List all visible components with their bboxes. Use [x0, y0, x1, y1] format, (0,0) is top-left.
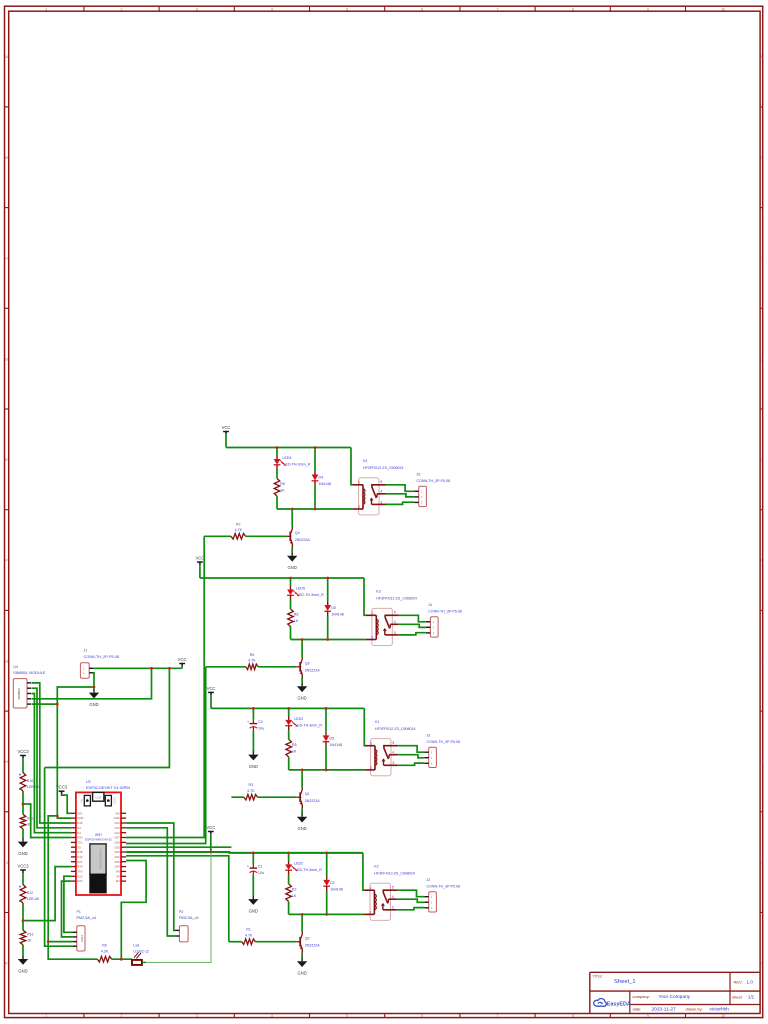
svg-text:5: 5: [346, 1014, 348, 1018]
svg-text:D: D: [760, 357, 763, 361]
wire emitter circuit 3: [301, 808, 303, 813]
photoresistor LDR1: [19, 773, 26, 792]
wire rail drop to ESP VIN feed: [45, 668, 170, 767]
ground below Q3: [297, 683, 307, 701]
wire ESP GPIO to base circuit 2: [126, 667, 206, 844]
svg-text:7: 7: [497, 1014, 499, 1018]
wire VCC rail circuit 4: [126, 851, 363, 854]
svg-text:C: C: [5, 257, 8, 261]
svg-text:K1: K1: [375, 720, 379, 724]
wire VCC3 to LDR2: [22, 873, 24, 884]
svg-text:J: J: [6, 861, 8, 865]
svg-text:2: 2: [358, 505, 360, 509]
svg-text:P1: P1: [77, 910, 81, 914]
svg-text:3: 3: [196, 7, 198, 11]
svg-text:1K: 1K: [292, 749, 297, 753]
svg-text:CONN-TH_3P-P5.08: CONN-TH_3P-P5.08: [427, 884, 461, 888]
svg-text:GND: GND: [18, 968, 27, 973]
transistor Q3: [296, 657, 303, 678]
LED LED3: [285, 716, 297, 730]
wire resistor to bottom rail circuit 1: [276, 496, 278, 509]
wire ESP GPIO to base circuit 3: [126, 846, 231, 848]
svg-text:GND: GND: [297, 696, 306, 701]
svg-text:R12: R12: [27, 891, 33, 895]
svg-text:4: 4: [271, 7, 273, 11]
svg-text:GND: GND: [89, 702, 98, 707]
relay K1: [365, 739, 398, 776]
svg-text:1N4148: 1N4148: [319, 482, 332, 486]
svg-text:GND: GND: [18, 851, 27, 856]
svg-text:5: 5: [380, 480, 382, 484]
label LDR1: [27, 779, 39, 789]
svg-text:D14: D14: [115, 831, 120, 835]
wire LED to resistor circuit 1: [276, 470, 278, 479]
wire ESP GPIO to base circuit 4: [126, 856, 229, 942]
resistor R8 LED series: [288, 609, 294, 627]
label LED2: [294, 861, 322, 872]
wire diode to bottom rail circuit 1: [314, 486, 316, 510]
wire relay pin3 to connector circuit 3: [398, 763, 425, 765]
svg-text:U4: U4: [13, 665, 18, 669]
svg-text:D35: D35: [115, 860, 120, 864]
svg-text:date:: date:: [633, 1007, 642, 1012]
svg-text:D4: D4: [319, 476, 324, 480]
svg-text:GND: GND: [297, 826, 306, 831]
svg-text:3: 3: [196, 1014, 198, 1018]
resistor R13: [20, 930, 26, 945]
svg-text:VCC: VCC: [222, 425, 231, 430]
wire branch to P1 pin3: [48, 941, 72, 943]
svg-text:+: +: [247, 719, 250, 724]
ESP32 chip and antenna: [90, 844, 106, 893]
resistor R1 base: [242, 939, 256, 945]
svg-text:ESP32-DEVKIT V4 30PIN: ESP32-DEVKIT V4 30PIN: [86, 786, 130, 790]
wire R9 junction: [112, 958, 132, 960]
svg-text:TX2: TX2: [77, 841, 82, 845]
svg-text:4: 4: [380, 490, 382, 494]
wire rail to capacitor circuit 3: [252, 708, 254, 719]
svg-text:D21: D21: [77, 860, 82, 864]
wire R11 to ground: [22, 829, 24, 838]
wire relay pin4 to connector circuit 4: [397, 899, 424, 902]
connector J4: [426, 617, 438, 637]
svg-text:D5: D5: [77, 845, 81, 849]
svg-text:1: 1: [45, 1014, 47, 1018]
svg-text:D19: D19: [77, 855, 82, 859]
wire VCC3 to LDR1: [22, 759, 24, 773]
label R5: [292, 743, 297, 754]
wire bottom rail circuit 2: [291, 639, 366, 641]
buzzer LS1: [132, 952, 142, 965]
resistor R4 base: [246, 664, 258, 670]
resistor R5 LED series: [286, 739, 292, 757]
svg-text:1K: 1K: [280, 489, 285, 493]
ground below J1: [89, 689, 99, 707]
label Q1: [305, 792, 321, 803]
svg-text:CONN-TH_3P-P5.08: CONN-TH_3P-P5.08: [428, 610, 462, 614]
label R1: [245, 928, 253, 938]
svg-text:C3: C3: [258, 720, 263, 724]
wire ESP to P2 pin1: [126, 823, 175, 930]
wire emitter circuit 1: [291, 548, 293, 553]
svg-text:D5: D5: [331, 606, 336, 610]
wire VCC stem circuit 1: [225, 435, 227, 448]
svg-text:4: 4: [394, 620, 396, 624]
svg-text:R9: R9: [102, 944, 107, 948]
label K4: [363, 459, 404, 470]
svg-text:Q3: Q3: [305, 662, 310, 666]
svg-text:LED2: LED2: [294, 861, 303, 865]
svg-text:EasyEDA: EasyEDA: [607, 1002, 631, 1008]
label LED5: [296, 587, 324, 598]
svg-text:4: 4: [392, 895, 394, 899]
svg-text:D25: D25: [115, 845, 120, 849]
svg-text:1/1: 1/1: [748, 995, 755, 1000]
wire base drive to resistor circuit 3: [231, 796, 244, 798]
wire VCC stem circuit 3: [210, 696, 212, 709]
svg-text:ESP32-WROOM: ESP32-WROOM: [99, 849, 103, 868]
svg-text:J1: J1: [84, 649, 88, 653]
label K1: [375, 720, 416, 731]
label K3: [376, 590, 417, 601]
wire base drive to resistor circuit 4: [229, 941, 242, 943]
svg-text:K2: K2: [374, 864, 378, 868]
wire relay pin3 to connector circuit 2: [399, 633, 426, 635]
svg-text:SIM800L: SIM800L: [17, 687, 21, 699]
svg-text:B: B: [5, 156, 8, 160]
svg-text:7: 7: [497, 7, 499, 11]
ground below Q4: [287, 552, 297, 570]
svg-text:Q4: Q4: [295, 531, 300, 535]
resistor R7 base: [231, 534, 246, 540]
svg-text:3: 3: [380, 500, 382, 504]
diode D3: [323, 732, 330, 747]
diode D5: [324, 602, 331, 617]
svg-text:LED4: LED4: [283, 456, 292, 460]
svg-text:R10: R10: [27, 779, 33, 783]
label P2: [179, 910, 199, 920]
svg-text:C: C: [760, 257, 763, 261]
svg-text:Q1: Q1: [305, 792, 310, 796]
label D3: [330, 736, 343, 747]
svg-text:1: 1: [45, 7, 47, 11]
wire diode to bottom rail circuit 4: [326, 891, 328, 915]
wire GSM pin3 to ESP: [32, 694, 71, 833]
svg-text:J5: J5: [417, 473, 421, 477]
svg-text:10: 10: [721, 1014, 725, 1018]
wire relay pin5 to connector circuit 4: [397, 890, 424, 897]
wire VCC stem J1 rail: [181, 667, 183, 669]
svg-text:LED5: LED5: [296, 587, 305, 591]
wire rail to diode circuit 1: [314, 448, 316, 472]
wire bottom rail circuit 4: [289, 913, 364, 915]
wire ESP to P1 pin2: [62, 881, 73, 937]
label Q4: [295, 531, 311, 542]
label LED3: [294, 717, 322, 728]
svg-text:D4: D4: [77, 831, 81, 835]
wire J1 pin1 to ground: [93, 673, 95, 689]
svg-text:D2: D2: [77, 826, 81, 830]
wire capacitor to ground circuit 3: [252, 730, 254, 751]
wire relay pin5 to connector circuit 3: [398, 746, 425, 753]
relay K3: [366, 608, 399, 645]
transistor Q2: [296, 932, 303, 953]
wire collector circuit 2: [301, 640, 303, 658]
svg-text:VCC: VCC: [195, 555, 204, 560]
svg-text:+: +: [247, 863, 250, 868]
svg-text:K: K: [5, 962, 8, 966]
connector J5: [414, 486, 426, 506]
label LDR2: [27, 891, 39, 901]
label R7: [235, 522, 243, 532]
wire ground net branch to P1 and R9: [48, 816, 97, 959]
power VCC3 divider 2: [17, 863, 29, 873]
wire ground net to ESP GND pin: [57, 816, 71, 818]
svg-text:D3: D3: [330, 736, 335, 740]
svg-text:LED-TH-3mm_R: LED-TH-3mm_R: [284, 463, 311, 467]
svg-text:1: 1: [371, 611, 373, 615]
svg-text:1N4148: 1N4148: [330, 887, 343, 891]
label LED4: [283, 456, 311, 467]
label C3: [258, 720, 264, 730]
svg-text:company:: company:: [633, 994, 650, 999]
label J3: [427, 733, 461, 744]
svg-text:2N2222A: 2N2222A: [305, 668, 321, 672]
wire LED to resistor circuit 4: [288, 875, 290, 884]
svg-text:GND: GND: [77, 816, 83, 820]
label R4: [248, 653, 256, 663]
svg-text:CONN-TH_3P-P5.08: CONN-TH_3P-P5.08: [427, 740, 461, 744]
svg-text:TITLE:: TITLE:: [593, 974, 603, 978]
wire LED to resistor circuit 3: [288, 730, 290, 739]
svg-text:LD-BZ-12: LD-BZ-12: [133, 949, 149, 953]
connector P1: [72, 926, 85, 951]
connector U4 GSM module: [13, 679, 31, 708]
ground below C3: [248, 751, 258, 769]
svg-text:LED-TH-3mm_R: LED-TH-3mm_R: [297, 593, 324, 597]
power VCC J1 rail: [178, 657, 187, 667]
label R3: [247, 783, 255, 793]
svg-text:K3: K3: [376, 590, 380, 594]
svg-text:R13: R13: [27, 932, 33, 936]
svg-text:D27: D27: [115, 836, 120, 840]
svg-text:9: 9: [647, 1014, 649, 1018]
svg-text:VCC3: VCC3: [17, 863, 29, 868]
wire capacitor to ground circuit 4: [252, 875, 254, 896]
svg-text:R5: R5: [292, 743, 297, 747]
svg-text:WIFI: WIFI: [95, 833, 102, 837]
svg-text:4.7K: 4.7K: [235, 528, 243, 532]
wire ground net vertical: [57, 687, 94, 816]
svg-text:victorhhh: victorhhh: [710, 1007, 730, 1013]
svg-text:VCC: VCC: [206, 825, 215, 830]
junction dots circuit 1: [276, 446, 317, 510]
label U2 ESP32-DEVKIT: [86, 780, 130, 790]
label R8: [294, 613, 299, 624]
wire resistor to base circuit 4: [255, 941, 296, 943]
svg-text:R4: R4: [250, 653, 255, 657]
svg-text:H: H: [5, 760, 8, 764]
svg-text:VCC: VCC: [178, 657, 187, 662]
wire VCC stem circuit 4: [210, 835, 212, 853]
wire rail to diode circuit 3: [325, 708, 327, 732]
resistor R2 LED series: [286, 884, 292, 902]
ESP32 buttons: [81, 795, 116, 806]
junction dots misc: [22, 667, 171, 961]
power VCC symbol circuit 1: [222, 425, 231, 435]
svg-text:J3: J3: [427, 733, 431, 737]
svg-text:D32: D32: [115, 855, 120, 859]
svg-text:GND: GND: [288, 565, 297, 570]
wire rail to LED circuit 4: [288, 853, 290, 861]
svg-text:RX2: RX2: [77, 836, 83, 840]
resistor R3 base: [244, 794, 258, 800]
label R2: [292, 887, 297, 898]
wire ESP to P1 pin1: [64, 876, 72, 932]
wire LDR1 to R11: [22, 791, 24, 814]
svg-text:5: 5: [394, 611, 396, 615]
svg-text:C1: C1: [258, 865, 263, 869]
wire R13 to ground: [22, 945, 24, 956]
label U4: [13, 665, 46, 675]
wire divider1 tap to ESP pin D4: [23, 804, 71, 838]
label R13: [27, 932, 33, 942]
svg-text:4: 4: [392, 751, 394, 755]
svg-text:A: A: [5, 55, 8, 59]
svg-text:RX0: RX0: [77, 865, 83, 869]
capacitor C1: [247, 863, 257, 875]
wire resistor to bottom rail circuit 2: [290, 627, 292, 640]
wire rail to LED circuit 3: [288, 708, 290, 716]
svg-text:2: 2: [121, 1014, 123, 1018]
ground below R11: [18, 838, 28, 856]
svg-text:8: 8: [572, 7, 574, 11]
svg-text:Q2: Q2: [305, 937, 310, 941]
wire VCC rail circuit 2: [200, 577, 364, 579]
svg-text:VN: VN: [116, 870, 120, 874]
svg-text:10u: 10u: [258, 871, 264, 875]
wire buzzer right stub: [142, 961, 146, 963]
svg-text:R1: R1: [246, 928, 251, 932]
wire rail to capacitor circuit 4: [252, 853, 254, 864]
svg-text:4.7K: 4.7K: [245, 933, 253, 937]
svg-text:REV:: REV:: [734, 980, 743, 985]
svg-text:10: 10: [721, 7, 725, 11]
power VCC3 divider 1: [17, 749, 29, 759]
svg-text:GND: GND: [297, 971, 306, 976]
svg-text:H: H: [760, 760, 763, 764]
svg-text:K4: K4: [363, 459, 367, 463]
ESP32 module U2 body: [76, 792, 121, 895]
wire collector circuit 1: [291, 509, 293, 527]
svg-text:1K: 1K: [292, 894, 297, 898]
svg-text:PM2.5A_v4: PM2.5A_v4: [77, 916, 97, 920]
power VCC3 main: [56, 785, 68, 795]
photoresistor LDR2: [19, 885, 26, 904]
wire GSM pin5 to ground net: [32, 703, 58, 705]
ESP32 USB connector: [93, 792, 104, 801]
svg-text:G: G: [760, 659, 763, 663]
ESP32 center text: [85, 833, 112, 842]
svg-text:LED-TH-3mm_R: LED-TH-3mm_R: [295, 723, 322, 727]
svg-text:2: 2: [121, 7, 123, 11]
svg-text:HF3FF/012-ZS_C908024: HF3FF/012-ZS_C908024: [374, 871, 415, 875]
wire bottom rail circuit 3: [289, 769, 365, 771]
label R6: [280, 482, 285, 493]
wire rail to LED circuit 2: [290, 578, 292, 586]
svg-text:PM25: PM25: [80, 935, 84, 942]
svg-text:TX0: TX0: [77, 870, 82, 874]
wire resistor to bottom rail circuit 4: [288, 901, 290, 914]
svg-text:GND: GND: [249, 909, 258, 914]
svg-text:Sheet_1: Sheet_1: [614, 979, 636, 985]
svg-text:D22: D22: [77, 874, 82, 878]
label Q2: [305, 937, 321, 948]
wire collector circuit 3: [301, 770, 303, 788]
svg-text:E: E: [5, 458, 8, 462]
svg-text:D34: D34: [115, 865, 120, 869]
wire buzzer to VCC thin: [146, 853, 211, 963]
svg-text:J: J: [761, 861, 763, 865]
wire ESP to P2 pin2: [126, 828, 175, 936]
svg-text:EN: EN: [81, 799, 84, 803]
wire rail to diode circuit 4: [326, 853, 328, 877]
svg-text:BOOT: BOOT: [113, 798, 116, 805]
label R11: [27, 817, 33, 827]
svg-text:4: 4: [271, 1014, 273, 1018]
wire base drive to resistor circuit 1: [204, 535, 231, 537]
wire rail drop to GSM pin4: [32, 668, 152, 699]
svg-text:sheet:: sheet:: [732, 995, 743, 1000]
relay K4: [353, 478, 386, 515]
title block text: [593, 974, 755, 1012]
ESP32 pins: [71, 811, 126, 883]
svg-text:LDR-A9: LDR-A9: [27, 897, 39, 901]
LED LED4: [274, 456, 286, 470]
diode D4: [312, 471, 319, 486]
label D5: [331, 606, 344, 617]
wire resistor to bottom rail circuit 3: [288, 757, 290, 770]
svg-text:2: 2: [371, 636, 373, 640]
svg-text:R3: R3: [248, 783, 253, 787]
svg-text:D18: D18: [77, 850, 82, 854]
svg-text:6: 6: [421, 7, 423, 11]
label J5: [417, 473, 451, 484]
svg-text:5: 5: [392, 886, 394, 890]
transistor Q1: [296, 788, 303, 809]
svg-text:ESP32-WROOM-32: ESP32-WROOM-32: [85, 838, 112, 842]
wire VCC rail circuit 3: [211, 707, 364, 709]
diode D2: [323, 876, 330, 891]
wire ESP GPIO to base circuit 1: [126, 536, 204, 837]
svg-text:2: 2: [370, 911, 372, 915]
wire divider2 tap to ESP pin: [23, 867, 71, 921]
ground below C1: [248, 896, 258, 914]
label Q3: [305, 662, 321, 673]
svg-text:D12: D12: [115, 826, 120, 830]
svg-text:VP: VP: [116, 874, 120, 878]
wire GND trunk left: [45, 768, 73, 947]
wire emitter circuit 4: [301, 953, 303, 958]
label D4: [319, 476, 332, 487]
label LS1: [133, 944, 149, 954]
wire rail to relay coil pin circuit 1: [351, 448, 353, 485]
svg-text:2N2222A: 2N2222A: [295, 538, 311, 542]
svg-text:VCC3: VCC3: [17, 749, 29, 754]
svg-text:2023-11-27: 2023-11-27: [652, 1007, 677, 1013]
svg-text:HF3FF/012-ZS_C908024: HF3FF/012-ZS_C908024: [375, 727, 416, 731]
svg-text:3V3: 3V3: [77, 811, 82, 815]
